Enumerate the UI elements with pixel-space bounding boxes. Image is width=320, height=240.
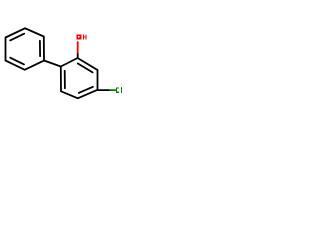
Cl label letter C (116, 87, 119, 93)
biphenyl link bond (44, 61, 61, 67)
C-Cl bond black half (98, 89, 111, 91)
Cl label letter l (121, 87, 122, 93)
benzene ring B outline (61, 58, 98, 98)
OH label letter O (77, 34, 82, 39)
ring B double bond 3 (78, 64, 93, 73)
ring A double bond 1 (10, 34, 24, 41)
ring A double bond 2 (39, 41, 41, 56)
benzene ring A outline (6, 28, 45, 70)
C-O bond black half (77, 53, 79, 58)
C-Cl bond green half (110, 89, 116, 91)
ring A double bond 3 (10, 58, 24, 65)
C-O bond red half (77, 42, 79, 53)
ring B double bond 2 (79, 87, 93, 93)
ring B double bond 1 (64, 71, 66, 89)
OH label letter H (83, 34, 84, 39)
